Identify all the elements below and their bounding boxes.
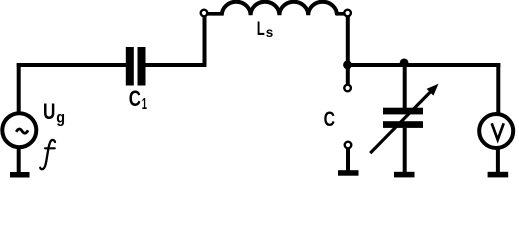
source sine tilde [16, 129, 28, 133]
variable capacitor C plates [383, 108, 423, 115]
node: junction dot at variable capacitor tap [400, 59, 409, 68]
wire: stub terminal to inductor [207, 12, 224, 16]
inductor Ls [222, 2, 337, 16]
label V (meter letter) [492, 123, 504, 139]
node: right terminal of Ls (open circle) [344, 10, 351, 17]
wire: vertical down to voltmeter [496, 63, 500, 115]
wire: down from tap to variable capacitor [403, 65, 407, 109]
ground (C port terminal) [346, 147, 350, 172]
wire: main left horizontal from source to C1 [17, 63, 127, 67]
ground (voltmeter) [496, 149, 500, 172]
svg-text:L: L [257, 19, 265, 40]
capacitor C1 [126, 47, 134, 86]
svg-text:C: C [324, 108, 335, 131]
ground (variable capacitor) [394, 172, 415, 178]
svg-text:C: C [129, 86, 141, 111]
wire: below variable capacitor to ground [403, 128, 407, 172]
wire: main right horizontal [348, 63, 501, 67]
node: lower open terminal of C port [345, 142, 352, 149]
svg-text:s: s [266, 24, 274, 40]
svg-text:U: U [43, 99, 55, 124]
voltmeter V circle [479, 114, 513, 148]
wire: from C1 to left riser corner [145, 17, 205, 66]
label f [40, 140, 55, 169]
wire: vertical from right terminal down to upper tap circle [346, 16, 350, 84]
node: upper open terminal of C port [344, 85, 351, 92]
node: junction dot at Ls right leg [343, 61, 352, 70]
wire: stub inductor to right terminal [336, 12, 345, 16]
svg-text:1: 1 [142, 96, 147, 113]
svg-text:g: g [56, 110, 65, 127]
node: left terminal of Ls (open circle) [201, 10, 208, 17]
ground (source) [17, 147, 21, 173]
arrow of variable capacitor [370, 91, 431, 153]
wire: vertical from source top to main wire [17, 63, 21, 112]
source U1 circle [2, 113, 36, 147]
